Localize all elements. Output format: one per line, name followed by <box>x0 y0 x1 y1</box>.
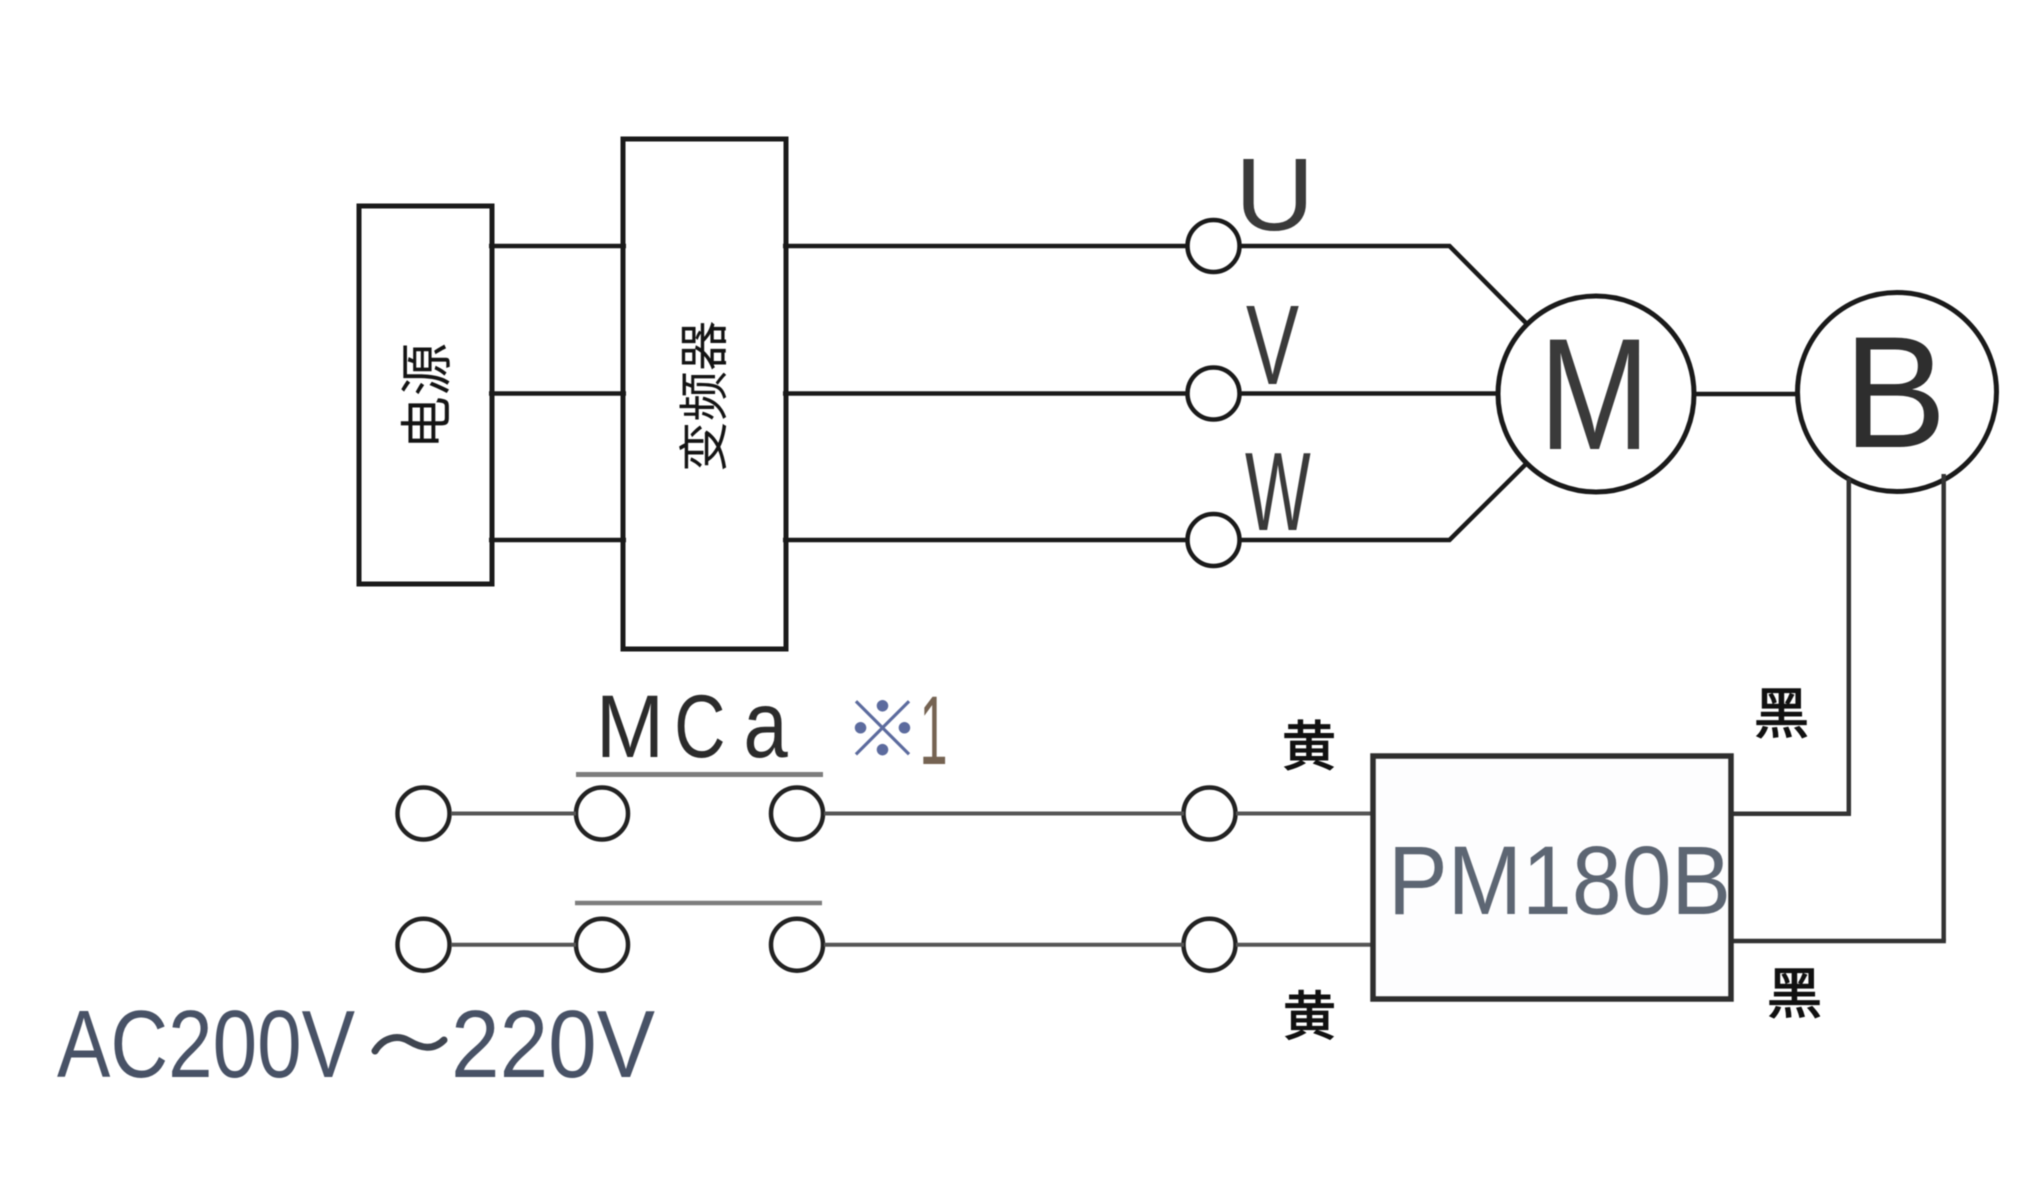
lower row wire segment 3 <box>1236 943 1374 947</box>
tilde wave <box>375 1038 444 1051</box>
svg-text:PM180B: PM180B <box>1388 826 1731 935</box>
PM180B box <box>1373 756 1731 999</box>
motor M circle <box>1498 296 1694 492</box>
wire power to inverter phase 3 <box>489 538 626 543</box>
wire color label 黑 (bottom) <box>1770 969 1819 1018</box>
svg-text:W: W <box>1245 429 1311 554</box>
contact bar lower <box>575 901 822 906</box>
svg-text:AC200V: AC200V <box>57 991 355 1098</box>
contactor label MCa <box>596 671 788 777</box>
upper row terminal circle 1 <box>398 788 450 840</box>
svg-text:U: U <box>1235 136 1315 252</box>
upper row terminal circle 3 <box>771 788 823 840</box>
contact bar upper <box>576 772 823 777</box>
wire V to motor <box>1240 391 1500 396</box>
label 变频器 (rotated) <box>679 322 726 469</box>
terminal W circle <box>1188 514 1240 566</box>
wire color label 黑 (top) <box>1757 689 1806 738</box>
terminal V circle <box>1188 368 1240 420</box>
brake lead wire 1 vertical <box>1847 478 1852 814</box>
svg-text:B: B <box>1843 304 1947 481</box>
svg-text:M: M <box>596 678 664 777</box>
brake B circle <box>1798 293 1997 492</box>
upper row wire segment 2 <box>824 812 1184 816</box>
lower row terminal circle 4 <box>1184 919 1236 971</box>
wire inverter to terminal W <box>783 538 1188 543</box>
lower row terminal circle 2 <box>576 919 628 971</box>
lower row terminal circle 3 <box>771 919 823 971</box>
upper row terminal circle 4 <box>1184 788 1236 840</box>
label 电源 (rotated) <box>401 345 450 443</box>
svg-text:C: C <box>674 677 725 776</box>
wire motor to brake <box>1694 392 1800 397</box>
svg-text:a: a <box>743 671 788 777</box>
wire power to inverter phase 1 <box>489 244 626 249</box>
svg-text:1: 1 <box>920 677 948 785</box>
upper row terminal circle 2 <box>576 788 628 840</box>
inverter box 变频器 <box>623 139 786 649</box>
upper row wire segment 3 <box>1236 812 1374 816</box>
wire W to motor <box>1240 463 1528 540</box>
power-supply box 电源 <box>359 206 492 584</box>
svg-text:220V: 220V <box>451 991 655 1098</box>
wire power to inverter phase 2 <box>489 391 626 396</box>
wire inverter to terminal V <box>783 391 1188 396</box>
terminal U circle <box>1188 220 1240 272</box>
lower row terminal circle 1 <box>398 919 450 971</box>
svg-text:M: M <box>1539 306 1650 484</box>
wire color label 黄 (bottom) <box>1286 990 1333 1039</box>
wire color label 黄 (top) <box>1285 720 1333 770</box>
lower row wire segment 1 <box>451 943 576 947</box>
svg-text:V: V <box>1246 282 1299 408</box>
wire inverter to terminal U <box>783 244 1188 249</box>
note mark ※ <box>855 700 910 755</box>
brake lead wire 2 vertical <box>1941 474 1946 941</box>
upper row wire segment 1 <box>451 812 576 816</box>
lower row wire segment 2 <box>824 943 1184 947</box>
wire U to motor <box>1240 246 1528 324</box>
brake lead wire 1 horizontal <box>1731 812 1851 817</box>
brake lead wire 2 horizontal <box>1731 939 1946 944</box>
